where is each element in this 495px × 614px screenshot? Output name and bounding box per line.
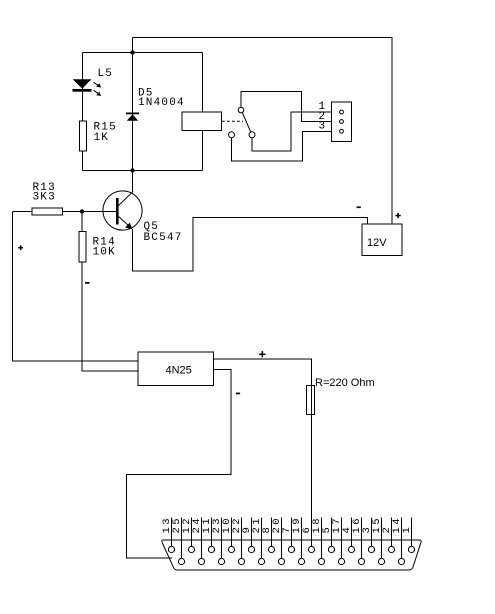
wire stub pin 4: [351, 518, 353, 547]
svg-text:3: 3: [319, 120, 327, 132]
wire top of relay branch: [133, 52, 203, 54]
label minus battery: [357, 206, 361, 208]
pin 7: [288, 546, 294, 552]
junction node base: [80, 209, 84, 213]
switch NO contact: [249, 132, 255, 138]
wire stub pin 24: [201, 518, 203, 559]
optocoupler 4N25: [138, 352, 214, 386]
pin 1: [408, 546, 414, 552]
wire stub pin 8: [271, 518, 273, 547]
wire top rail to 12V plus: [133, 38, 393, 225]
pin 13: [168, 546, 174, 552]
battery 12V: [362, 224, 402, 256]
wire bottom of relay branch: [133, 170, 203, 172]
svg-text:3K3: 3K3: [33, 191, 56, 203]
label R14 10K: [93, 237, 116, 259]
label D5 1N4004: [138, 88, 185, 109]
label minus left: [85, 282, 90, 284]
svg-text:BC547: BC547: [144, 232, 183, 244]
resistor R15: [80, 121, 87, 151]
switch NC contact: [229, 132, 235, 138]
pin 11: [208, 546, 214, 552]
label R15 1K: [94, 121, 117, 143]
resistor R14: [79, 232, 86, 263]
connector J1: [332, 102, 352, 142]
relay actuation dashed link: [222, 120, 243, 122]
label plus output: [259, 351, 265, 357]
wire stub pin 13: [171, 518, 173, 547]
wire stub pin 7: [291, 518, 293, 547]
wire stub pin 20: [281, 518, 283, 559]
wire stub pin 15: [381, 518, 383, 559]
wire emitter to 12V minus: [133, 218, 368, 272]
label plus left: [18, 245, 23, 250]
resistor R 220 Ohm: [307, 386, 315, 415]
pin 24: [198, 558, 204, 564]
relay coil K1: [182, 112, 222, 131]
pin 17: [338, 558, 344, 564]
label minus output: [236, 393, 240, 395]
transistor Q5: [103, 191, 142, 230]
pin 10: [228, 546, 234, 552]
svg-text:1: 1: [401, 525, 413, 534]
label Q5 BC547: [144, 221, 183, 244]
wire top of LED branch: [83, 52, 133, 54]
pin 23: [218, 558, 224, 564]
pin 16: [358, 558, 364, 564]
junction node top: [130, 50, 134, 54]
junction node bottom: [130, 168, 134, 172]
wire NC contact to pin 3: [232, 131, 340, 161]
svg-text:L5: L5: [98, 68, 114, 80]
wire stub pin 22: [241, 518, 243, 559]
wire R14 branch to 4N25: [82, 212, 138, 372]
wire 4N25 minus output to connector shell: [127, 370, 232, 559]
wire stub pin 16: [361, 518, 363, 559]
pin hole 3: [340, 129, 344, 133]
wire stub pin 18: [321, 518, 323, 559]
svg-text:12V: 12V: [367, 237, 387, 249]
wire stub pin 6: [311, 518, 313, 547]
svg-text:4N25: 4N25: [166, 364, 192, 376]
wire stub pin 9: [251, 518, 253, 547]
pin 14: [398, 558, 404, 564]
wire NO contact to pin 1: [252, 112, 340, 151]
wire stub pin 12: [191, 518, 193, 547]
svg-text:1N4004: 1N4004: [138, 97, 185, 109]
wire stub pin 2: [391, 518, 393, 547]
wire stub pin 11: [211, 518, 213, 547]
pin 4: [348, 546, 354, 552]
pin 2: [388, 546, 394, 552]
svg-text:10K: 10K: [93, 247, 116, 259]
pin 3: [368, 546, 374, 552]
pin 20: [278, 558, 284, 564]
wire stub pin 5: [331, 518, 333, 547]
wire stub pin 25: [181, 518, 183, 559]
pin hole 1: [340, 110, 344, 114]
switch pivot contact: [238, 107, 244, 113]
pin 12: [188, 546, 194, 552]
wire bottom of LED branch: [83, 170, 133, 172]
wire stub pin 3: [371, 518, 373, 547]
svg-text:1K: 1K: [94, 132, 110, 144]
wire stub pin 23: [221, 518, 223, 559]
switch armature: [242, 112, 251, 133]
wire left plus branch to 4N25: [13, 212, 139, 362]
pin 18: [318, 558, 324, 564]
label R13 3K3: [33, 182, 56, 203]
wire stub pin 14: [401, 518, 403, 559]
pin 8: [268, 546, 274, 552]
pin 19: [298, 558, 304, 564]
wire stub pin 17: [341, 518, 343, 559]
svg-text:R=220 Ohm: R=220 Ohm: [315, 377, 375, 389]
wire switch common to pivot: [241, 92, 340, 122]
wire stub pin 1: [411, 518, 413, 547]
label plus battery: [395, 213, 400, 218]
resistor R13: [32, 208, 63, 215]
pin 22: [238, 558, 244, 564]
LED L5: [73, 79, 102, 96]
pin hole 2: [340, 120, 344, 124]
wire stub pin 19: [301, 518, 303, 559]
wire D5 branch / collector vertical: [132, 38, 134, 192]
pin 15: [378, 558, 384, 564]
wire relay coil vertical: [202, 53, 204, 171]
pin 21: [258, 558, 264, 564]
DB25 connector shell: [162, 540, 421, 570]
pin 9: [248, 546, 254, 552]
pin 5: [328, 546, 334, 552]
pin 6: [308, 546, 314, 552]
wire base rail: [13, 211, 117, 213]
pin 25: [178, 558, 184, 564]
wire stub pin 10: [231, 518, 233, 547]
wire 4N25 plus output to resistor and pin 6: [214, 359, 312, 546]
diode D5: [126, 113, 139, 121]
wire LED branch vertical: [82, 53, 84, 171]
wire stub pin 21: [261, 518, 263, 559]
